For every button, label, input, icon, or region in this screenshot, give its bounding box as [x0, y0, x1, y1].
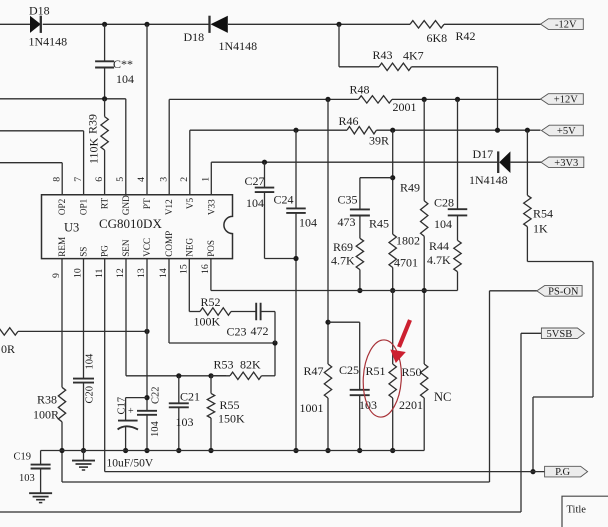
resistor R39	[86, 99, 109, 195]
svg-text:103: 103	[19, 473, 35, 484]
svg-text:POS: POS	[206, 240, 216, 257]
capacitor C**	[95, 24, 134, 99]
capacitor C23	[227, 303, 276, 343]
svg-text:472: 472	[251, 324, 269, 338]
svg-text:39R: 39R	[369, 134, 389, 148]
capacitor C28	[434, 99, 467, 240]
capacitor C22	[137, 259, 162, 454]
svg-text:82K: 82K	[240, 358, 261, 372]
flag +5V	[542, 125, 584, 137]
resistor R48	[350, 83, 417, 115]
svg-text:PS-ON: PS-ON	[548, 287, 579, 298]
svg-text:13: 13	[136, 268, 147, 278]
svg-text:R44: R44	[429, 239, 449, 253]
svg-text:C28: C28	[434, 196, 454, 210]
svg-text:OP1: OP1	[79, 198, 89, 215]
svg-text:R47: R47	[304, 364, 324, 378]
svg-text:C27: C27	[245, 174, 265, 188]
capacitor C19	[14, 451, 51, 494]
resistor 0R (partial, left edge)	[0, 328, 150, 356]
svg-text:PG: PG	[100, 245, 110, 257]
wire POS net (pin16)	[211, 259, 424, 291]
svg-text:11: 11	[94, 268, 105, 278]
IC U3 CG8010DX	[42, 177, 233, 278]
svg-text:C23: C23	[227, 325, 247, 339]
svg-text:C**: C**	[113, 57, 133, 71]
svg-text:14: 14	[158, 268, 169, 278]
svg-text:+5V: +5V	[557, 126, 576, 137]
resistor R46	[339, 114, 390, 148]
svg-text:4701: 4701	[394, 256, 418, 270]
ground (C19)	[29, 493, 52, 502]
resistor R51	[366, 364, 397, 398]
svg-text:R53: R53	[214, 358, 234, 372]
resistor R42	[410, 21, 476, 45]
svg-text:5: 5	[115, 177, 126, 182]
diode D18 (left)	[29, 4, 68, 49]
capacitor C25	[328, 322, 377, 453]
svg-text:C17: C17	[117, 397, 128, 415]
wire pin9 REM	[59, 259, 64, 454]
svg-text:1K: 1K	[533, 222, 548, 236]
diode D17	[469, 147, 510, 187]
diode D18 (second)	[184, 16, 258, 53]
annotation red ellipse	[361, 339, 403, 418]
capacitor C27	[245, 162, 297, 258]
label 10uF/50V	[107, 458, 154, 470]
wire R45 column	[390, 130, 395, 453]
wire PS-ON net	[62, 291, 537, 482]
svg-text:+: +	[128, 406, 134, 417]
svg-text:15: 15	[179, 264, 190, 274]
title block	[562, 496, 608, 527]
resistor R50	[399, 364, 451, 412]
svg-text:V12: V12	[164, 199, 174, 215]
ground (rail)	[72, 451, 95, 471]
svg-text:R49: R49	[400, 181, 420, 195]
flag P.G	[545, 466, 588, 478]
svg-text:GND: GND	[121, 195, 131, 215]
svg-text:2: 2	[179, 177, 190, 182]
svg-text:R39: R39	[86, 114, 100, 134]
svg-text:R69: R69	[333, 240, 353, 254]
resistor R69	[331, 238, 364, 293]
svg-text:6K8: 6K8	[427, 31, 448, 45]
svg-text:OP2: OP2	[57, 198, 67, 215]
resistor R54	[524, 130, 553, 235]
svg-text:4.7K: 4.7K	[427, 253, 451, 267]
svg-text:+3V3: +3V3	[554, 158, 578, 169]
wire ground rail	[41, 450, 425, 452]
svg-text:1N4148: 1N4148	[219, 39, 258, 53]
svg-text:473: 473	[338, 215, 356, 229]
svg-text:C22: C22	[151, 386, 162, 404]
capacitor C20	[73, 259, 96, 454]
svg-text:Title: Title	[567, 505, 587, 516]
resistor R53	[211, 343, 275, 379]
capacitor C24	[274, 130, 318, 453]
wire SEN net (pin12)	[126, 259, 226, 379]
resistor R44	[424, 239, 461, 291]
wire R49 column	[422, 99, 427, 450]
svg-text:COMP: COMP	[164, 231, 174, 257]
svg-text:U3: U3	[64, 221, 79, 235]
svg-text:104: 104	[85, 353, 96, 370]
flag +3V3	[541, 157, 584, 169]
svg-text:VCC: VCC	[142, 238, 152, 257]
svg-text:2201: 2201	[399, 398, 423, 412]
svg-text:4.7K: 4.7K	[331, 254, 355, 268]
svg-text:P.G: P.G	[555, 467, 570, 478]
wire -12V net (top rail)	[0, 22, 541, 27]
svg-text:R55: R55	[220, 398, 240, 412]
svg-text:104: 104	[116, 72, 134, 86]
capacitor C35	[338, 178, 393, 239]
svg-text:V5: V5	[185, 197, 195, 209]
svg-text:R38: R38	[37, 393, 57, 407]
svg-text:R45: R45	[369, 217, 389, 231]
svg-text:C19: C19	[14, 452, 32, 463]
svg-text:103: 103	[176, 415, 194, 429]
wire pin8 OP2 net	[0, 163, 62, 195]
wire pin5 GND net	[0, 96, 126, 195]
flag -12V	[541, 19, 584, 31]
svg-text:R48: R48	[350, 83, 370, 97]
svg-text:10: 10	[73, 268, 84, 278]
svg-text:SS: SS	[79, 247, 89, 257]
svg-text:12: 12	[115, 268, 126, 278]
wire R54 to P.G route	[527, 227, 593, 475]
resistor R55	[207, 376, 245, 453]
svg-text:R51: R51	[366, 364, 386, 378]
svg-text:REM: REM	[57, 237, 67, 257]
resistor R52	[189, 259, 256, 329]
svg-text:4K7: 4K7	[403, 49, 424, 63]
svg-text:1N4148: 1N4148	[29, 35, 68, 49]
capacitor C17	[117, 397, 148, 453]
svg-text:R50: R50	[402, 365, 422, 379]
flag PS-ON	[537, 286, 582, 298]
resistor R49	[396, 181, 428, 248]
svg-text:4: 4	[136, 177, 147, 182]
svg-text:+12V: +12V	[554, 95, 578, 106]
svg-text:110K: 110K	[87, 137, 101, 164]
svg-text:C21: C21	[180, 390, 200, 404]
svg-text:R52: R52	[201, 295, 221, 309]
wire COMP net (pin14)	[169, 259, 278, 346]
flag 5VSB	[541, 328, 584, 340]
svg-text:D18: D18	[184, 30, 205, 44]
svg-text:8: 8	[51, 177, 62, 182]
wire P.G net (pin11)	[105, 259, 545, 472]
svg-text:6: 6	[94, 177, 105, 182]
wire +5V net	[190, 128, 541, 195]
wire +12V net	[169, 97, 540, 195]
svg-text:D18: D18	[29, 4, 50, 18]
wire pin7 OP1 net	[0, 131, 84, 195]
flag +12V	[541, 94, 584, 106]
svg-text:104: 104	[434, 217, 452, 231]
svg-text:150K: 150K	[218, 412, 245, 426]
svg-text:C35: C35	[338, 193, 358, 207]
svg-text:104: 104	[246, 196, 264, 210]
resistor R43	[339, 24, 498, 130]
svg-text:100R: 100R	[33, 408, 59, 422]
wire R47 column	[325, 99, 330, 453]
svg-text:R42: R42	[456, 29, 476, 43]
svg-text:1N4148: 1N4148	[469, 173, 508, 187]
svg-text:3: 3	[158, 177, 169, 182]
svg-text:10uF/50V: 10uF/50V	[107, 458, 154, 470]
svg-text:C25: C25	[339, 363, 359, 377]
svg-text:R43: R43	[373, 48, 393, 62]
svg-text:104: 104	[150, 421, 161, 438]
svg-text:CG8010DX: CG8010DX	[99, 216, 162, 231]
svg-text:2001: 2001	[393, 100, 417, 114]
svg-text:100K: 100K	[194, 315, 221, 329]
svg-text:-12V: -12V	[555, 20, 577, 31]
capacitor C21	[169, 376, 200, 453]
svg-text:5VSB: 5VSB	[547, 329, 573, 340]
wire pin4 PT net	[146, 24, 148, 195]
svg-text:9: 9	[51, 273, 62, 278]
svg-text:1: 1	[201, 177, 212, 182]
svg-text:NC: NC	[434, 390, 451, 404]
resistor R38	[33, 387, 66, 422]
svg-text:D17: D17	[473, 147, 494, 161]
svg-text:1001: 1001	[300, 401, 324, 415]
svg-text:1802: 1802	[396, 234, 420, 248]
svg-text:R46: R46	[339, 114, 359, 128]
svg-text:SEN: SEN	[121, 239, 131, 257]
svg-text:NEG: NEG	[184, 238, 194, 257]
svg-text:C24: C24	[274, 193, 294, 207]
svg-text:RT: RT	[100, 198, 110, 210]
resistor R47	[300, 364, 332, 415]
svg-text:0R: 0R	[1, 342, 15, 356]
resistor R45	[369, 217, 418, 270]
svg-text:R54: R54	[533, 207, 553, 221]
svg-text:7: 7	[73, 177, 84, 182]
svg-text:V33: V33	[206, 199, 216, 215]
svg-text:PT: PT	[142, 198, 152, 209]
wire 5VSB net	[0, 333, 541, 512]
svg-text:C20: C20	[85, 386, 96, 404]
svg-text:104: 104	[299, 216, 317, 230]
svg-text:16: 16	[200, 264, 211, 274]
wire V33 +3V3 net	[211, 160, 541, 195]
annotation red arrow	[390, 320, 410, 363]
